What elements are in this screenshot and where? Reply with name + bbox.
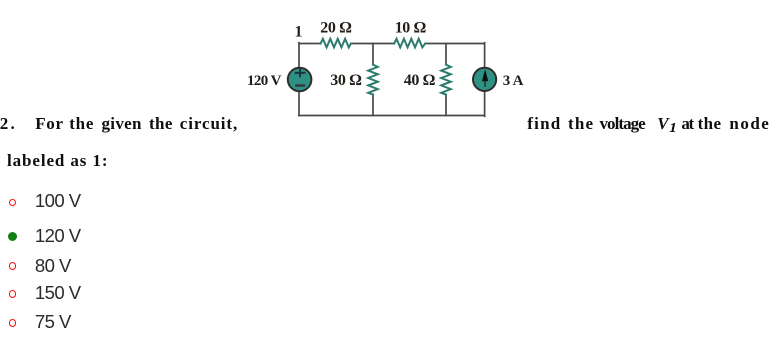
current source arrow head: [482, 69, 488, 81]
option radio (unselected) 80 V: [9, 262, 17, 270]
resistor 30 ohm zigzag (vertical, middle branch): [368, 65, 378, 95]
wire left branch lower (V source - terminal to bottom rail): [298, 91, 300, 115]
svg-text:20 Ω: 20 Ω: [320, 20, 352, 37]
option text 150 V: [35, 284, 81, 302]
question line 1 right word: find: [527, 115, 561, 132]
svg-text:10 Ω: 10 Ω: [395, 20, 427, 37]
question line 1 right word: the (3rd): [698, 115, 722, 132]
question line 1 right word: voltage: [600, 115, 645, 132]
svg-text:1: 1: [295, 24, 303, 41]
svg-text:30 Ω: 30 Ω: [330, 72, 362, 89]
voltage source 120 V circle: [288, 68, 312, 92]
question line 1 right: V1 italic with subscript: [657, 115, 675, 135]
question line 1 word: circuit,: [180, 115, 238, 132]
svg-text:40 Ω: 40 Ω: [404, 72, 436, 89]
wire middle branch upper (top rail to R 30ohm): [372, 44, 374, 65]
option radio (selected, green) 120 V: [8, 232, 17, 241]
wire middle branch lower (R 30ohm to bottom rail): [372, 95, 374, 116]
wire top-right segment (R 10ohm to current source branch): [425, 43, 484, 45]
svg-text:120 V: 120 V: [247, 73, 282, 89]
option text 80 V: [35, 257, 71, 275]
question line 1 word: given: [102, 115, 142, 132]
option text 120 V: [35, 227, 81, 245]
wire bottom rail: [299, 115, 485, 117]
voltage source minus sign: [295, 84, 305, 87]
question number "2.": [0, 115, 17, 132]
wire right branch upper (top rail to current source): [484, 43, 486, 68]
resistor 10 ohm zigzag (horizontal, top right): [394, 39, 425, 48]
question line 1 right word: node: [729, 115, 770, 132]
question line 1 word: the: [69, 115, 94, 132]
question line 1 right word: at: [681, 115, 692, 132]
question line 1 word: the (2nd): [149, 115, 173, 132]
resistor 20 ohm zigzag (horizontal, top left): [321, 39, 351, 48]
wire second middle branch lower (R 40ohm to bottom rail): [445, 95, 447, 116]
svg-text:3 A: 3 A: [503, 73, 524, 89]
option radio (unselected) 150 V: [9, 290, 17, 298]
current source 3 A circle: [473, 68, 496, 91]
resistor 40 ohm zigzag (vertical, second middle branch): [441, 65, 451, 95]
question text line 2: labeled as 1:: [7, 152, 108, 169]
wire left branch upper (node 1 to V source + terminal): [298, 43, 300, 68]
question line 1 right word: the: [568, 115, 594, 132]
wire top-left segment (node 1 to R 20ohm): [299, 43, 321, 45]
option radio (unselected) 100 V: [9, 199, 17, 207]
voltage source plus sign: [295, 69, 306, 78]
wire second middle branch upper (top rail to R 40ohm): [445, 44, 447, 65]
current source arrow tail: [484, 76, 486, 87]
wire top-middle segment (R 20ohm to R 10ohm): [351, 43, 394, 45]
question line 1 word: For: [35, 115, 64, 132]
option text 75 V: [35, 313, 71, 331]
option radio (unselected) 75 V: [9, 319, 17, 327]
option text 100 V: [35, 192, 81, 210]
wire right branch lower (current source to bottom rail): [484, 91, 486, 116]
